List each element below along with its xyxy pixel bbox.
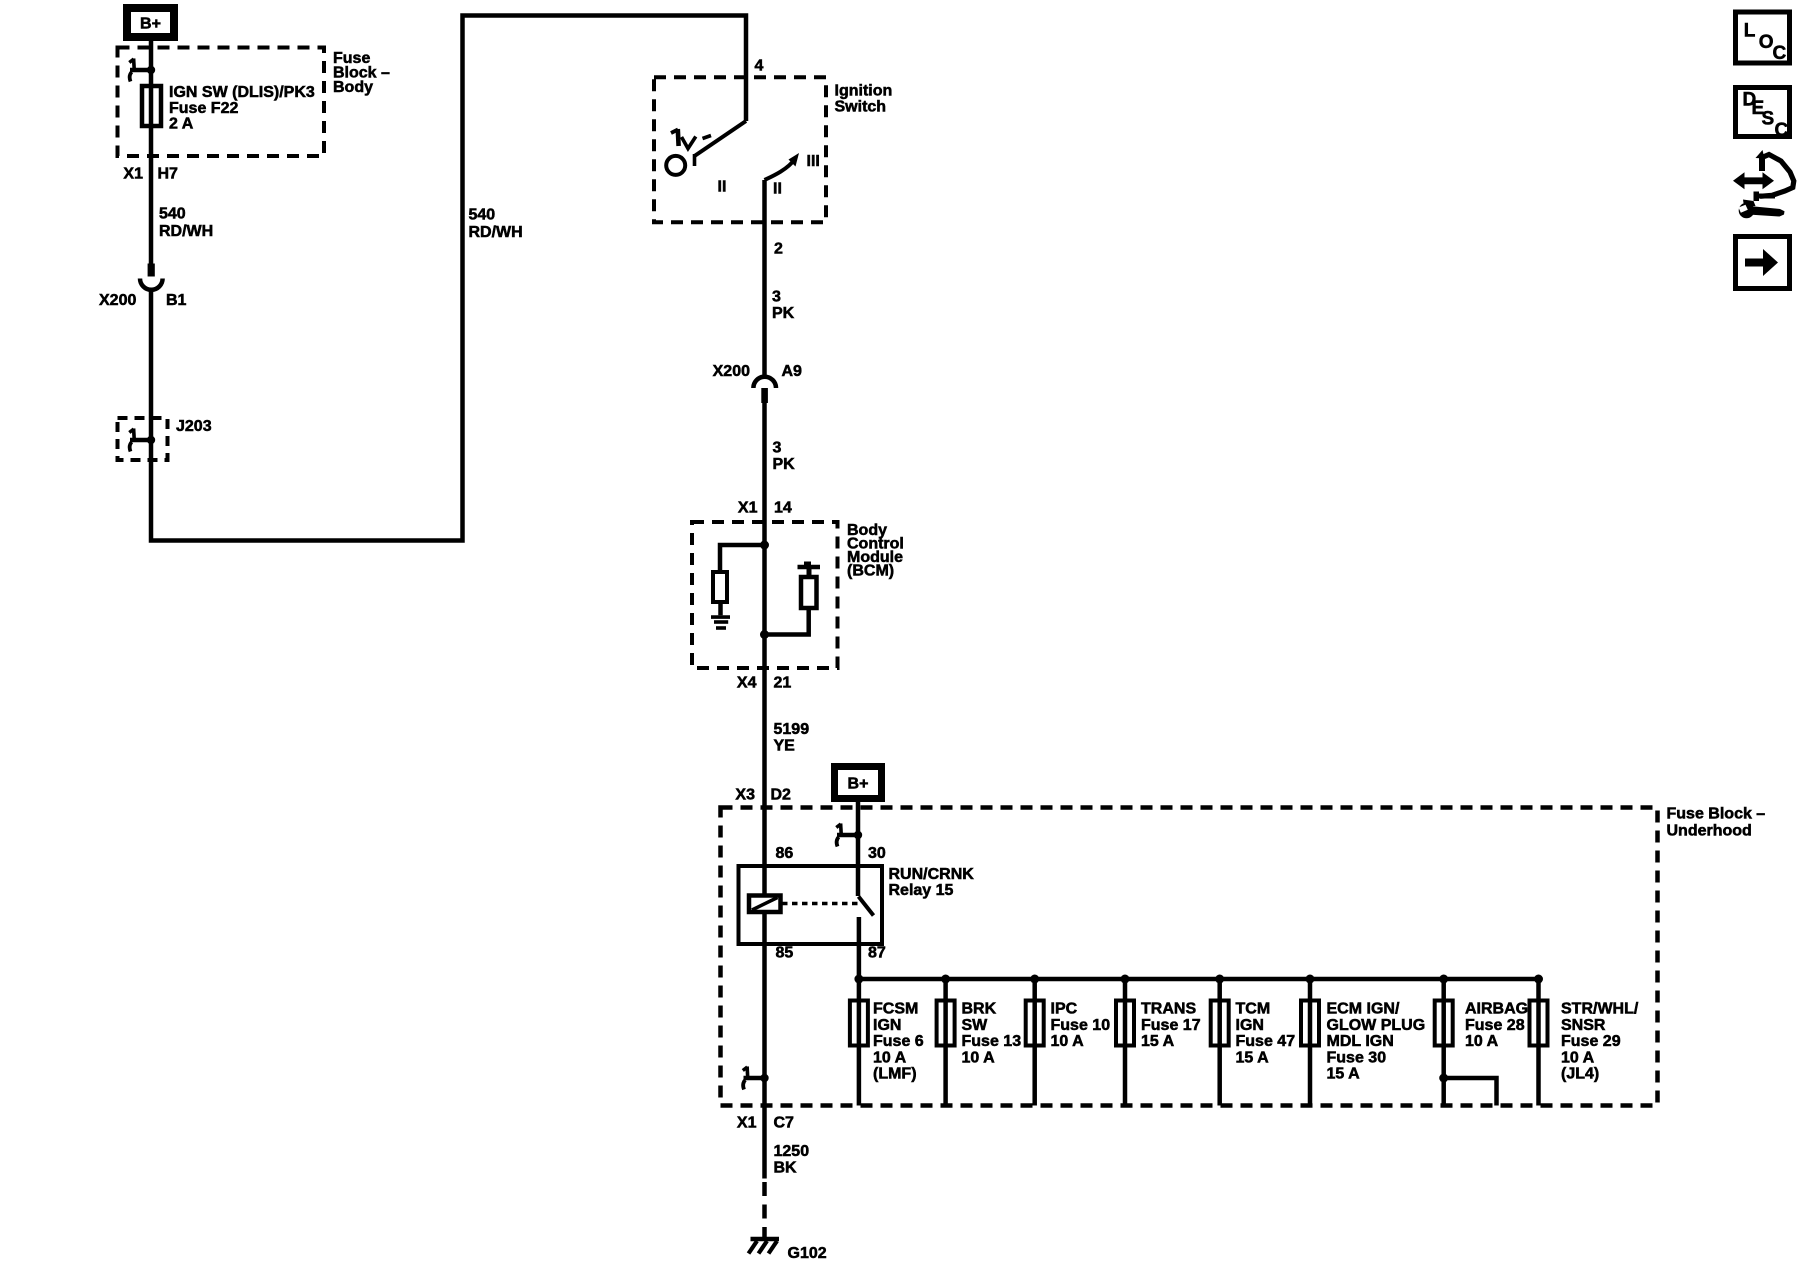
resistor in BCM (to ground) <box>713 572 727 602</box>
node junction on fuse bus at ECM IGN Fuse 30 <box>1306 975 1315 984</box>
relay pin 85 label <box>776 945 794 962</box>
svg-text:IGN: IGN <box>1236 1017 1264 1034</box>
svg-text:2 A: 2 A <box>169 116 194 133</box>
svg-text:X1: X1 <box>738 500 758 517</box>
svg-text:RD/WH: RD/WH <box>469 224 523 241</box>
fuse ECM IGN Fuse 30 value label <box>1327 1001 1426 1083</box>
relay pin 87 label <box>868 945 886 962</box>
wire fuse bus through fuse TCM IGN Fuse 47 to block edge <box>1217 979 1222 1106</box>
svg-text:C: C <box>1773 43 1787 64</box>
wire AIRBAG fuse output jog <box>1439 1074 1496 1106</box>
wire fuse bus through fuse AIRBAG Fuse 28 to block edge <box>1441 979 1446 1106</box>
connector X200 B1 label <box>99 292 187 309</box>
svg-text:10 A: 10 A <box>962 1049 996 1066</box>
ignition switch position label IV <box>671 129 711 149</box>
svg-text:10 A: 10 A <box>1051 1033 1085 1050</box>
svg-text:(JL4): (JL4) <box>1561 1066 1599 1083</box>
wire label 3 PK (below X200 A9) <box>773 440 796 474</box>
power symbol B+ (battery positive, underhood feed) <box>835 767 882 799</box>
sidebar LOC icon <box>1736 12 1790 64</box>
svg-text:10 A: 10 A <box>1561 1049 1595 1066</box>
svg-text:Body: Body <box>333 79 373 96</box>
wire label 540 RD/WH (left drop) <box>159 206 213 241</box>
fuse F22 value label <box>169 84 315 133</box>
connector X200 pin B1 (male pin into female cup) <box>140 264 163 290</box>
relay coil <box>749 866 781 944</box>
fuse STR/WHL/SNSR Fuse 29 value label <box>1561 1001 1639 1083</box>
wire through BCM <box>762 522 767 668</box>
sidebar forward arrow icon <box>1736 237 1790 289</box>
svg-text:14: 14 <box>774 500 792 517</box>
fuse BRK SW Fuse 13 <box>937 1001 955 1046</box>
fuse block internal connection clip at relay pin 30 feed <box>836 824 862 847</box>
svg-text:10 A: 10 A <box>873 1049 907 1066</box>
fuse FCSM IGN Fuse 6 value label <box>873 1001 924 1083</box>
ignition switch (dashed outline) <box>654 77 826 222</box>
svg-text:3: 3 <box>773 440 782 457</box>
svg-text:Fuse 10: Fuse 10 <box>1051 1017 1111 1034</box>
node junction in BCM (upper) <box>760 541 769 550</box>
relay actuation dashed link <box>782 902 858 906</box>
svg-text:O: O <box>1759 32 1774 53</box>
wire label 5199 YE <box>774 721 810 755</box>
connector X1 pin H7 label <box>123 166 178 183</box>
wire B+ to fuse F22 to connector X200 B1 (circuit 540) <box>149 41 154 264</box>
svg-text:X200: X200 <box>713 363 750 380</box>
svg-text:85: 85 <box>776 945 794 962</box>
underhood fuse block connector X3 pin D2 label <box>735 787 791 804</box>
ground symbol in BCM <box>711 617 730 628</box>
splice J203 (dashed box) <box>118 418 168 460</box>
svg-text:86: 86 <box>776 845 794 862</box>
svg-text:(BCM): (BCM) <box>847 563 894 580</box>
wire resistor to ground <box>718 602 723 615</box>
svg-text:II: II <box>773 181 782 198</box>
ignition switch position label III <box>807 153 820 170</box>
svg-text:RUN/CRNK: RUN/CRNK <box>889 866 975 883</box>
svg-text:Fuse 13: Fuse 13 <box>962 1033 1022 1050</box>
ignition switch position label II (at pin 2) <box>773 181 782 198</box>
svg-text:Switch: Switch <box>835 99 887 116</box>
svg-text:IPC: IPC <box>1051 1001 1078 1018</box>
svg-text:GLOW PLUG: GLOW PLUG <box>1327 1017 1426 1034</box>
svg-text:Ignition: Ignition <box>835 83 893 100</box>
wire fuse bus through fuse FCSM IGN Fuse 6 to block edge <box>857 979 862 1106</box>
node junction on fuse bus at AIRBAG Fuse 28 <box>1439 975 1448 984</box>
fuse BRK SW Fuse 13 value label <box>962 1001 1022 1067</box>
svg-text:II: II <box>718 179 727 196</box>
svg-text:SW: SW <box>962 1017 989 1034</box>
fuse block internal connection clip on pin 85 wire <box>743 1067 769 1090</box>
svg-text:30: 30 <box>868 845 886 862</box>
splice J203 label <box>176 418 212 435</box>
wire fuse bus through fuse TRANS Fuse 17 to block edge <box>1123 979 1128 1106</box>
wire 3 PK from X200 A9 to BCM X1-14 <box>762 403 767 522</box>
fuse TCM IGN Fuse 47 <box>1211 1001 1229 1046</box>
fuse TRANS Fuse 17 <box>1116 1001 1134 1046</box>
underhood fuse block connector X1 pin C7 label <box>737 1115 794 1132</box>
svg-text:X1: X1 <box>737 1115 757 1132</box>
svg-text:IGN: IGN <box>873 1017 901 1034</box>
wire relay pin 85 to underhood block edge <box>762 944 767 1106</box>
svg-text:L: L <box>1744 21 1756 42</box>
fuse AIRBAG Fuse 28 <box>1435 1001 1453 1046</box>
fuse STR/WHL/SNSR Fuse 29 <box>1530 1001 1548 1046</box>
fuse block - underhood (dashed outline) <box>721 808 1658 1106</box>
svg-text:ECM IGN/: ECM IGN/ <box>1327 1001 1400 1018</box>
connector X200 pin A9 (female cup over male pin) <box>753 377 776 403</box>
svg-text:III: III <box>807 153 820 170</box>
node junction on fuse bus at TRANS Fuse 17 <box>1121 975 1130 984</box>
svg-text:Fuse 28: Fuse 28 <box>1465 1017 1525 1034</box>
connector X200 A9 label <box>713 363 802 380</box>
svg-text:5199: 5199 <box>774 721 810 738</box>
svg-text:Underhood: Underhood <box>1667 823 1752 840</box>
relay RUN/CRNK Relay 15 (solid box) <box>739 866 883 944</box>
fuse TCM IGN Fuse 47 value label <box>1236 1001 1296 1067</box>
fuse AIRBAG Fuse 28 value label <box>1465 1001 1528 1051</box>
svg-text:Fuse F22: Fuse F22 <box>169 100 238 117</box>
fuse IPC Fuse 10 <box>1026 1001 1044 1046</box>
svg-text:J203: J203 <box>176 418 212 435</box>
wire pull-up resistor to node <box>765 608 809 635</box>
svg-text:STR/WHL/: STR/WHL/ <box>1561 1001 1639 1018</box>
wire label 540 RD/WH (riser to ignition switch) <box>469 207 523 242</box>
fuse block body label <box>333 50 390 96</box>
fuse block - body (dashed outline) <box>118 48 325 157</box>
svg-text:21: 21 <box>774 675 792 692</box>
BCM connector X4 pin 21 label <box>737 675 791 692</box>
svg-text:AIRBAG: AIRBAG <box>1465 1001 1528 1018</box>
svg-text:Fuse 6: Fuse 6 <box>873 1033 924 1050</box>
svg-text:Fuse 30: Fuse 30 <box>1327 1049 1387 1066</box>
fuse ECM IGN Fuse 30 <box>1301 1001 1319 1046</box>
fuse block underhood label <box>1667 806 1766 840</box>
node junction on fuse bus at BRK SW Fuse 13 <box>941 975 950 984</box>
fuse FCSM IGN Fuse 6 <box>850 1001 868 1046</box>
BCM connector X1 pin 14 label <box>738 500 792 517</box>
svg-text:540: 540 <box>469 207 496 224</box>
wire fuse bus through fuse STR/WHL/SNSR Fuse 29 to block edge <box>1536 979 1541 1106</box>
node junction on fuse bus at STR/WHL/SNSR Fuse 29 <box>1534 975 1543 984</box>
wire fuse bus through fuse BRK SW Fuse 13 to block edge <box>943 979 948 1106</box>
svg-text:FCSM: FCSM <box>873 1001 918 1018</box>
svg-text:2: 2 <box>774 241 783 258</box>
ignition switch pin 2 label <box>774 241 783 258</box>
wire relay pin 87 to fuse bus <box>859 917 1539 979</box>
svg-text:TCM: TCM <box>1236 1001 1271 1018</box>
wire label 3 PK (above X200 A9) <box>772 289 795 323</box>
svg-text:X200: X200 <box>99 292 136 309</box>
relay label <box>889 866 975 899</box>
svg-text:10 A: 10 A <box>1465 1033 1499 1050</box>
svg-text:MDL IGN: MDL IGN <box>1327 1033 1394 1050</box>
sidebar DESC icon <box>1736 88 1790 142</box>
node junction on fuse bus at IPC Fuse 10 <box>1030 975 1039 984</box>
svg-text:B+: B+ <box>140 16 161 33</box>
node junction in BCM (lower) <box>760 630 769 639</box>
svg-text:4: 4 <box>755 58 764 75</box>
svg-text:Relay 15: Relay 15 <box>889 882 954 899</box>
wire fuse bus through fuse ECM IGN Fuse 30 to block edge <box>1308 979 1313 1106</box>
svg-text:X1: X1 <box>123 166 143 183</box>
svg-text:15 A: 15 A <box>1327 1066 1361 1083</box>
relay pin 86 label <box>776 845 794 862</box>
svg-text:X4: X4 <box>737 675 757 692</box>
svg-text:PK: PK <box>773 456 796 473</box>
ignition switch position label II (left) <box>718 179 727 196</box>
svg-text:G102: G102 <box>788 1245 827 1262</box>
svg-text:Fuse 47: Fuse 47 <box>1236 1033 1296 1050</box>
relay pin 30 label <box>868 845 886 862</box>
power symbol B+ (battery positive, fuse block body feed) <box>127 8 174 37</box>
wire B+ to relay pin 30 <box>856 799 861 896</box>
svg-text:B1: B1 <box>166 292 187 309</box>
svg-text:RD/WH: RD/WH <box>159 223 213 240</box>
svg-text:S: S <box>1762 109 1775 130</box>
svg-text:H7: H7 <box>158 166 179 183</box>
ignition switch actuation arrow to position III <box>765 153 800 180</box>
ignition switch pin 4 label <box>755 58 764 75</box>
svg-text:SNSR: SNSR <box>1561 1017 1606 1034</box>
ignition switch LOCK position circle <box>666 156 685 175</box>
svg-text:Fuse Block –: Fuse Block – <box>1667 806 1766 823</box>
fuse F22 (IGN SW (DLIS)/PK3, 2 A) <box>142 86 161 126</box>
fuse IPC Fuse 10 value label <box>1051 1001 1111 1051</box>
svg-text:C: C <box>1775 120 1789 141</box>
svg-text:1250: 1250 <box>774 1143 810 1160</box>
relay switch arm (pin 30 to 87, open) <box>859 897 874 916</box>
svg-text:D2: D2 <box>771 787 792 804</box>
svg-text:BK: BK <box>774 1160 798 1177</box>
wire from ignition switch pin 2 to connector X200 A9 (circuit 3 PK) <box>762 180 767 377</box>
svg-text:3: 3 <box>772 289 781 306</box>
svg-text:IGN SW (DLIS)/PK3: IGN SW (DLIS)/PK3 <box>169 84 315 101</box>
wire 540 RD/WH from X200 B1 through J203 looping up to ignition switch pin 4 <box>151 16 746 541</box>
BCM internal supply tap <box>798 562 821 578</box>
sidebar cross-reference icon (double arrow, loop, wrench) <box>1733 150 1794 218</box>
wire 1250 BK to ground G102 <box>762 1106 767 1240</box>
splice J203 clip <box>129 429 155 452</box>
wire to BCM pull-down resistor <box>720 545 765 572</box>
ground G102 label <box>788 1245 827 1262</box>
resistor in BCM (sense pull-up) <box>801 577 817 608</box>
svg-text:B+: B+ <box>848 776 869 793</box>
BCM label <box>847 522 904 580</box>
svg-text:YE: YE <box>774 738 796 755</box>
fuse block internal connection clip at top of F22 <box>129 59 155 82</box>
svg-text:C7: C7 <box>774 1115 795 1132</box>
svg-text:Fuse 29: Fuse 29 <box>1561 1033 1621 1050</box>
body control module BCM (dashed outline) <box>692 522 838 668</box>
svg-text:BRK: BRK <box>962 1001 997 1018</box>
svg-text:15 A: 15 A <box>1236 1049 1270 1066</box>
ignition switch label <box>835 83 893 116</box>
wire fuse bus through fuse IPC Fuse 10 to block edge <box>1032 979 1037 1106</box>
svg-text:PK: PK <box>772 305 795 322</box>
ignition switch movable arm from pin 4 <box>695 121 747 166</box>
node junction on fuse bus at FCSM IGN Fuse 6 <box>854 975 863 984</box>
svg-text:87: 87 <box>868 945 886 962</box>
svg-text:15 A: 15 A <box>1141 1033 1175 1050</box>
ground G102 (chassis ground) <box>749 1239 780 1254</box>
svg-text:540: 540 <box>159 206 186 223</box>
wire 5199 YE from BCM X4-21 to RUN/CRNK relay coil <box>762 668 767 866</box>
svg-text:Fuse 17: Fuse 17 <box>1141 1017 1201 1034</box>
wire label 1250 BK <box>774 1143 810 1177</box>
svg-text:(LMF): (LMF) <box>873 1066 917 1083</box>
svg-text:X3: X3 <box>735 787 755 804</box>
fuse TRANS Fuse 17 value label <box>1141 1001 1201 1051</box>
svg-text:A9: A9 <box>782 363 803 380</box>
svg-text:TRANS: TRANS <box>1141 1001 1196 1018</box>
node junction on fuse bus at TCM IGN Fuse 47 <box>1215 975 1224 984</box>
